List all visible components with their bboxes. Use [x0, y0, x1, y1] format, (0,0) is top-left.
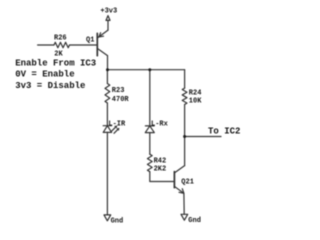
wire bus horizontal	[108, 69, 185, 71]
svg-text:2K2: 2K2	[154, 165, 167, 173]
svg-text:L-IR: L-IR	[108, 120, 126, 128]
junction node To IC2	[183, 135, 186, 138]
svg-text:Gnd: Gnd	[188, 217, 201, 225]
svg-text:Enable From IC3: Enable From IC3	[15, 59, 96, 69]
wire R26 to Q1 base	[70, 44, 97, 46]
resistor R24	[182, 88, 187, 104]
svg-text:10K: 10K	[189, 97, 202, 105]
wire R23 branch	[106, 70, 108, 84]
ground right	[181, 214, 188, 220]
LED L-IR	[103, 126, 118, 134]
wire L-IR to gnd	[106, 132, 108, 215]
transistor Q1	[97, 20, 108, 55]
wire Q21 emitter to gnd	[183, 193, 185, 214]
wire L-Rx branch	[149, 70, 151, 126]
svg-text:R26: R26	[54, 34, 67, 42]
resistor R42	[147, 154, 152, 172]
ground left	[104, 215, 111, 221]
svg-text:0V = Enable: 0V = Enable	[15, 70, 74, 80]
power +3v3 arrow	[106, 16, 110, 21]
wire Q1 collector down	[107, 56, 109, 70]
resistor R26	[54, 42, 70, 47]
junction node collector/R23	[106, 68, 109, 71]
wire R24 upper	[184, 70, 186, 88]
junction node L-Rx	[148, 68, 151, 71]
wire R24 lower	[184, 105, 186, 137]
wire R23 to L-IR	[106, 103, 108, 126]
wire L-Rx to R42	[149, 133, 151, 155]
svg-text:2K: 2K	[54, 50, 63, 58]
diode L-Rx	[145, 126, 154, 133]
svg-text:Gnd: Gnd	[111, 217, 124, 225]
LED arrowheads	[114, 126, 117, 129]
wire R42 to Q21 base	[150, 172, 174, 182]
svg-text:To IC2: To IC2	[208, 127, 240, 137]
svg-text:Q1: Q1	[86, 36, 94, 44]
transistor Q21	[174, 166, 184, 194]
svg-text:470R: 470R	[112, 96, 130, 104]
svg-text:+3v3: +3v3	[100, 8, 117, 16]
svg-text:R23: R23	[112, 87, 125, 95]
wire base input	[38, 44, 54, 46]
wire to IC2	[185, 136, 221, 138]
svg-text:Q21: Q21	[181, 178, 194, 186]
resistor R23	[105, 84, 110, 104]
wire Q21 collector up	[184, 137, 186, 166]
svg-text:3v3 = Disable: 3v3 = Disable	[15, 81, 85, 91]
svg-text:L-Rx: L-Rx	[151, 120, 169, 128]
